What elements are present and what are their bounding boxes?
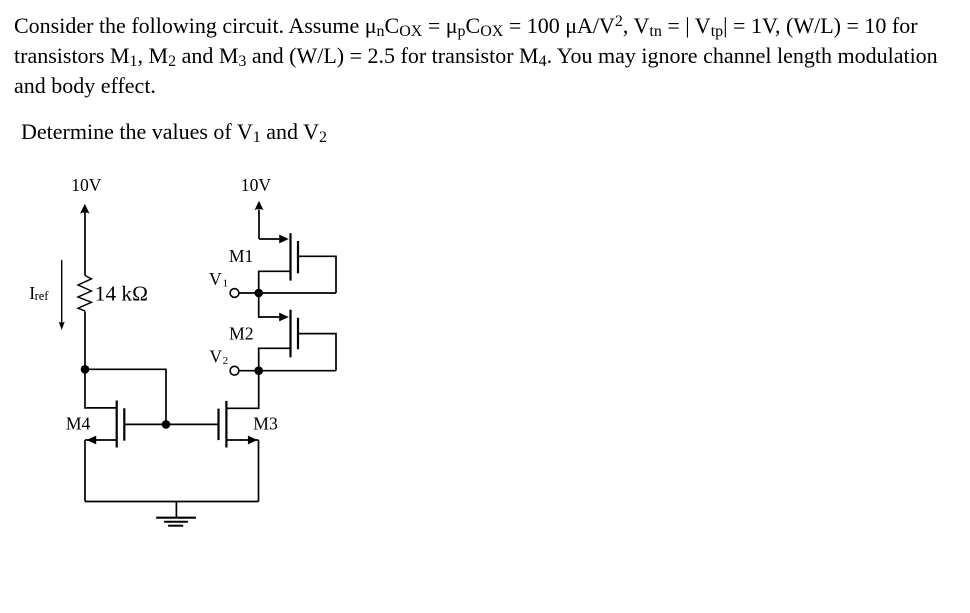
svg-text:14 kΩ: 14 kΩ: [95, 281, 148, 305]
svg-text:2: 2: [223, 355, 229, 367]
wire supply to M1 source with arrow: [259, 235, 289, 244]
wire node to gate bus: [85, 369, 166, 424]
power arrow right supply: [255, 201, 264, 239]
terminal V1: [230, 289, 239, 298]
wire resistor bottom to node: [84, 312, 86, 370]
svg-text:M3: M3: [253, 414, 278, 434]
svg-text:M2: M2: [229, 323, 253, 343]
transistor M4: [117, 401, 125, 448]
label V1: [209, 269, 228, 289]
terminal V2: [230, 366, 239, 375]
wire M3 drain riser: [226, 371, 258, 409]
label 10V left supply: [71, 175, 102, 195]
transistor M3: [219, 401, 227, 448]
wire M4 drain riser: [85, 369, 117, 408]
wire V1 to M2 source with arrow: [259, 293, 289, 321]
svg-text:1: 1: [223, 278, 229, 290]
junction node V2: [254, 366, 263, 375]
junction node V1: [254, 289, 263, 298]
power arrow left supply: [80, 204, 89, 276]
label M2: [229, 323, 253, 343]
wire M2 drain down: [259, 348, 291, 370]
transistor M2: [291, 310, 299, 358]
label M4: [66, 414, 91, 434]
transistor M1: [291, 233, 299, 280]
junction node resistor bottom: [81, 365, 90, 374]
label V2: [209, 346, 228, 367]
question line: [21, 117, 327, 147]
svg-text:10V: 10V: [241, 175, 272, 195]
wire M1 drain down: [259, 271, 291, 293]
svg-text:V: V: [209, 269, 222, 289]
svg-text:V: V: [209, 346, 222, 366]
wire M3 source with arrow: [226, 436, 258, 502]
wire gate bus M4 to M3: [124, 423, 218, 425]
label M3: [253, 414, 278, 434]
wire M4 source with arrow: [85, 436, 117, 502]
ground: [156, 502, 196, 526]
wire node V1 row: [239, 292, 336, 294]
label 10V right supply: [241, 175, 272, 195]
problem statement paragraph: [14, 11, 938, 101]
svg-text:M4: M4: [66, 414, 91, 434]
label 14 kOhm: [95, 281, 148, 305]
svg-text:ref: ref: [35, 289, 50, 303]
wire M1 gate loop: [298, 256, 336, 293]
resistor R1 14 kOhm: [78, 276, 92, 312]
label M1: [229, 246, 253, 266]
junction node gate bus: [162, 420, 171, 429]
wire M2 gate loop: [298, 334, 336, 371]
svg-text:10V: 10V: [71, 175, 102, 195]
wire node V2 row: [239, 370, 336, 372]
svg-text:M1: M1: [229, 246, 253, 266]
current arrow Iref: [59, 260, 65, 330]
label Iref: [29, 283, 49, 303]
wire bottom rail: [85, 501, 259, 503]
